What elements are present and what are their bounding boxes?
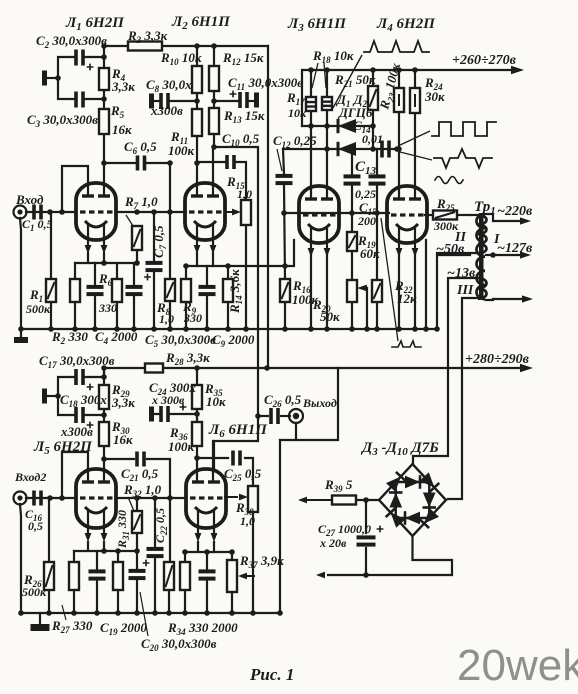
wire C27 bottom lead	[365, 548, 367, 575]
svg-text:0,25: 0,25	[355, 187, 376, 201]
waveform square wave	[432, 122, 496, 136]
wire C26 from coupling	[258, 415, 268, 417]
junction dot R39-bridge	[363, 497, 369, 503]
pointer from pulses	[333, 55, 362, 108]
resistor R39	[332, 496, 356, 505]
tube Л2 6Н1П	[185, 183, 225, 254]
wire R13 bottom lead	[213, 134, 215, 147]
svg-text:10к: 10к	[206, 394, 226, 409]
capacitor C5	[126, 285, 143, 296]
wire R16 to bus	[284, 302, 286, 329]
wire C10 to R15	[236, 162, 246, 200]
wire output box	[295, 423, 297, 440]
wire C17 right lead	[85, 376, 104, 378]
resistor R2	[70, 279, 80, 302]
diode Д9	[405, 511, 420, 525]
wire grid line Л3-Л4	[284, 212, 389, 214]
svg-text:+280÷290в: +280÷290в	[465, 352, 530, 367]
wire C15 top lead	[376, 149, 378, 175]
+260V supply bus with arrow	[302, 66, 524, 74]
capacitor C13	[344, 174, 361, 185]
diode Д2	[338, 142, 356, 156]
wire bridge bottom out	[413, 536, 453, 575]
wire R9 to bus	[185, 302, 187, 329]
wire input grid Л5	[26, 497, 76, 499]
wire anode feed top row	[104, 45, 268, 47]
svg-text:С21 0,5: С21 0,5	[121, 466, 159, 483]
wire R37 top lead	[231, 552, 233, 560]
common terminal C2/C3	[42, 71, 47, 86]
wire C2 right lead	[85, 56, 104, 58]
wire R20 to bus	[351, 302, 353, 329]
capacitor C9	[199, 285, 216, 296]
wire R17 to anode Л3	[310, 111, 312, 199]
wire R2 top lead	[74, 263, 76, 279]
wire R10-R11 node	[196, 93, 198, 109]
wire R35-C24 node	[196, 409, 198, 422]
svg-text:С6 0,5: С6 0,5	[124, 139, 157, 156]
wire R27 top lead	[73, 551, 75, 562]
wire R29-C18 junction	[103, 409, 105, 422]
arrow into R38	[224, 494, 248, 501]
wire R30 to anode Л5	[103, 446, 105, 482]
wire Л3 cathode drops	[310, 253, 312, 329]
resistor R21	[368, 86, 378, 110]
chassis ground lower	[31, 624, 50, 631]
resistor R16	[280, 279, 290, 302]
svg-text:330: 330	[98, 301, 117, 315]
wire Л4 cathode drop right	[414, 254, 416, 329]
pointer line R7 label	[126, 215, 133, 226]
rectifier bridge frame	[379, 464, 446, 536]
capacitor C1	[32, 205, 43, 220]
wire Л5 cathode drops	[87, 542, 89, 551]
svg-text:60к: 60к	[360, 246, 380, 261]
svg-text:R3 3,3к: R3 3,3к	[127, 28, 168, 45]
wire Л2 right anode	[212, 147, 214, 196]
pointer line C12 label	[277, 149, 282, 171]
wire R12-R13 node	[213, 91, 215, 108]
svg-text:С2 30,0х300в: С2 30,0х300в	[36, 33, 107, 50]
svg-text:С22 0,5: С22 0,5	[153, 508, 169, 543]
junction dots +260 bus	[308, 67, 418, 73]
junction dots lower cathode rows	[101, 548, 235, 555]
resistor R9	[181, 279, 191, 302]
wire C18 right lead	[85, 414, 104, 416]
wire R20 wiper	[366, 288, 368, 329]
svg-text:1,0: 1,0	[240, 514, 255, 528]
resistor R28	[145, 364, 163, 373]
capacitor C20	[129, 560, 150, 581]
wire cathode row Л6	[185, 551, 232, 553]
resistor R24	[410, 88, 420, 113]
wire +260 bus drop left	[301, 70, 303, 126]
wire C19 to bus	[96, 581, 98, 613]
wire C24 to node	[170, 413, 197, 415]
capacitor C6	[136, 156, 147, 171]
wire common stub to C2/C3	[47, 77, 58, 79]
capacitor C14	[380, 141, 391, 158]
wire Л1 left anode out	[62, 166, 88, 212]
svg-text:Л4 6Н2П: Л4 6Н2П	[376, 16, 436, 34]
wire R24 top lead	[414, 70, 416, 88]
capacitor C21	[135, 452, 146, 467]
svg-text:0,01: 0,01	[362, 132, 383, 146]
resistor R19	[347, 232, 357, 251]
svg-text:С10 0,5: С10 0,5	[222, 131, 260, 148]
tube Л1 6Н2П	[76, 183, 116, 254]
svg-text:R34 330 2000: R34 330 2000	[167, 620, 238, 637]
wire R32 bottom lead	[136, 533, 138, 551]
wire R15 to bus	[245, 225, 247, 329]
wire ground drop lower	[39, 613, 41, 624]
wire winding I bottom	[486, 299, 493, 300]
wire winding I tap	[486, 254, 493, 256]
capacitor C17	[74, 369, 93, 390]
junction dots multivib bus	[308, 326, 440, 332]
wire C23 leads	[206, 552, 208, 569]
wire winding II bottom	[437, 252, 477, 254]
svg-text:R2 330: R2 330	[51, 329, 88, 346]
resistor R38	[248, 486, 258, 512]
bottom rail with arrow	[316, 572, 452, 579]
wire input grid Л1	[26, 211, 76, 213]
wire Л2 cathode drops	[196, 253, 198, 266]
svg-text:Рис. 1: Рис. 1	[249, 665, 294, 684]
junction dots lower feed	[101, 365, 270, 418]
svg-text:С20 30,0х300в: С20 30,0х300в	[141, 636, 217, 653]
capacitor C3	[74, 92, 85, 108]
wire winding III top	[413, 278, 477, 464]
wire C3 right lead	[85, 98, 104, 100]
pointer line R27 label	[62, 605, 66, 620]
wire R26 column	[48, 498, 50, 562]
resistor R11	[192, 109, 202, 136]
wire R14 leads	[227, 266, 229, 279]
diode Д1	[338, 119, 356, 133]
capacitor C19	[89, 569, 106, 580]
junction dot winding tap	[490, 252, 496, 258]
wire R2 to bus	[74, 302, 76, 329]
junction dots upper grid/anode	[47, 75, 217, 215]
resistor R3	[128, 42, 162, 51]
wire R7 bottom lead	[136, 250, 138, 263]
svg-text:500к: 500к	[22, 585, 47, 599]
svg-text:R37 3,9к: R37 3,9к	[239, 553, 284, 570]
svg-text:R7 1,0: R7 1,0	[124, 194, 158, 211]
wire R37 to bus	[231, 592, 233, 613]
capacitor C8	[159, 93, 170, 109]
wire C11 left lead	[214, 100, 238, 102]
arrow R39 output	[298, 497, 332, 504]
wire R4-C3 junction	[103, 90, 105, 109]
resistor R5	[99, 109, 109, 134]
wire C13 to grid	[351, 185, 353, 213]
wire ground bus lower	[21, 612, 280, 614]
svg-text:R32 1,0: R32 1,0	[123, 482, 162, 499]
wire R14 to bus	[227, 302, 229, 329]
svg-text:R10 10к: R10 10к	[160, 50, 202, 67]
rectifier bridge inner frame	[396, 482, 430, 518]
arrow wiper R37	[238, 573, 255, 580]
svg-text:~127в: ~127в	[497, 241, 533, 256]
svg-text:Вход2: Вход2	[14, 470, 46, 484]
capacitor C18	[74, 407, 93, 428]
wire grid node to R33	[169, 499, 171, 562]
wire diode line D2	[283, 148, 399, 150]
svg-text:200: 200	[357, 214, 376, 228]
svg-text:R31 330: R31 330	[115, 510, 131, 549]
svg-text:С7 0,5: С7 0,5	[151, 225, 168, 258]
wire winding I top	[486, 214, 493, 221]
junction dots upper feed row	[101, 43, 217, 104]
junction dots multivib grid	[281, 210, 380, 216]
wire input2 shield rail	[20, 504, 21, 613]
wire Л6 cathode drops	[197, 542, 199, 552]
resistor R29	[99, 385, 109, 409]
svg-text:С18 300х: С18 300х	[60, 392, 107, 409]
resistor R36	[192, 422, 202, 446]
resistor R12	[209, 66, 219, 91]
svg-text:1,0: 1,0	[237, 187, 252, 201]
wire R23 to anode Л4	[398, 112, 400, 199]
svg-text:R5: R5	[110, 103, 125, 120]
wire C4 leads	[94, 263, 96, 285]
resistor R26	[44, 562, 54, 590]
junction dot C27 bottom	[363, 572, 369, 578]
wire R13 to channel-2 coupling	[214, 147, 258, 469]
svg-text:30к: 30к	[424, 89, 445, 104]
wire C8 stub lead	[154, 100, 159, 102]
wire output shield drop	[279, 440, 281, 613]
svg-text:С25 0,5: С25 0,5	[224, 466, 262, 483]
svg-text:10к: 10к	[288, 106, 307, 120]
svg-text:+260÷270в: +260÷270в	[452, 53, 517, 68]
wire Л4 cathode drops	[398, 254, 400, 329]
svg-text:R25: R25	[436, 196, 455, 213]
wire C27 top lead	[365, 500, 367, 533]
wire C2 left lead	[58, 57, 74, 99]
resistor R1	[46, 279, 56, 302]
wire R25 input	[425, 214, 433, 216]
capacitor C16	[32, 491, 43, 506]
transformer winding I	[477, 214, 486, 299]
svg-text:III: III	[456, 283, 474, 298]
wire R36 to anode Л6	[196, 446, 198, 482]
svg-text:100к: 100к	[168, 143, 195, 158]
resistor R34	[180, 562, 190, 590]
tube Л5 6Н2П	[76, 469, 116, 542]
wire R17 top lead	[310, 70, 312, 97]
svg-text:С4 2000: С4 2000	[95, 329, 138, 346]
svg-text:330: 330	[183, 311, 202, 325]
waveform small sine	[435, 177, 463, 184]
capacitor C24	[159, 404, 186, 422]
svg-text:I: I	[493, 232, 500, 247]
wire C9 to bus	[206, 296, 208, 329]
wire cathode row Л2	[186, 240, 294, 266]
svg-text:16к: 16к	[113, 432, 133, 447]
wire R18 down	[326, 110, 328, 199]
capacitor C12	[276, 174, 293, 185]
transformer winding III	[478, 278, 487, 299]
wire C20 leads	[136, 551, 138, 569]
svg-text:R6: R6	[98, 271, 113, 288]
wire R21 bottom lead	[372, 110, 374, 149]
wire winding II top	[470, 214, 477, 216]
resistor R8	[165, 279, 175, 301]
capacitor C22	[147, 547, 164, 558]
tube Л3 6Н1П	[299, 186, 339, 257]
svg-text:х300в: х300в	[150, 103, 183, 118]
arrow into R15	[225, 209, 241, 216]
wire C25 line	[197, 457, 228, 459]
wire Л6 cathode drop right	[213, 542, 215, 552]
wire R21 top lead	[372, 70, 374, 86]
wire bus to transformer return	[437, 255, 470, 329]
wire Л6 right anode	[212, 441, 214, 482]
resistor R35	[192, 385, 202, 409]
svg-text:1,0: 1,0	[159, 312, 174, 326]
junction dots lower bus	[18, 610, 283, 616]
tube Л4 6Н2П	[387, 186, 427, 257]
wire R34 to bus	[184, 590, 186, 613]
wire R19 to R20	[351, 251, 353, 280]
waveform small sawtooth near +280 bus	[392, 341, 421, 347]
wire Л2 cathode drop right	[212, 253, 214, 266]
wire R6 to bus	[116, 302, 118, 329]
diode Д8	[423, 493, 437, 508]
svg-text:С3 30,0х300в: С3 30,0х300в	[27, 112, 98, 129]
svg-text:Л3 6Н1П: Л3 6Н1П	[287, 16, 347, 34]
svg-text:R18 10к: R18 10к	[312, 48, 354, 65]
wire C6 line	[104, 162, 136, 164]
junction dots upper bus	[18, 326, 288, 332]
wire R31 to bus	[117, 590, 119, 613]
diode Д4	[420, 472, 440, 492]
wire cathode row Л1	[75, 262, 137, 264]
wire C21 line	[104, 458, 134, 460]
arrow wiper R20	[357, 285, 367, 292]
svg-text:R39 5: R39 5	[324, 477, 353, 494]
wire R23 top lead	[398, 70, 400, 88]
wire C26 to output	[281, 415, 290, 417]
resistor R13	[209, 108, 219, 134]
wire R18 top lead	[326, 70, 328, 97]
diode Д7	[405, 475, 420, 489]
wire winding III bottom	[448, 298, 477, 499]
resistor R10	[192, 66, 202, 93]
resistor R27	[69, 562, 79, 590]
input connector Вход	[14, 206, 27, 219]
wire anode feed drop to lower channel	[267, 46, 269, 368]
svg-text:С17 30,0х300в: С17 30,0х300в	[39, 353, 115, 370]
svg-text:R28 3,3к: R28 3,3к	[165, 350, 210, 367]
wire grid line Л1-Л2	[116, 211, 186, 213]
wire common stub lower	[47, 395, 58, 397]
svg-text:R14 3,6к: R14 3,6к	[227, 269, 244, 314]
common terminal C17/C18	[42, 389, 47, 404]
tick inside R23	[398, 94, 400, 106]
stub C11 right	[254, 93, 259, 108]
wire C5 to bus	[133, 296, 135, 329]
resistor R6	[112, 279, 122, 302]
wire C23 to bus	[206, 581, 208, 613]
svg-text:Д3 -Д10 Д7Б: Д3 -Д10 Д7Б	[360, 440, 439, 458]
wire C20 to bus	[136, 580, 138, 613]
wire C10 line	[197, 161, 225, 163]
wire C19 leads	[96, 551, 98, 569]
wire C22 top lead	[154, 498, 156, 548]
wire Л5 left anode out	[62, 452, 88, 498]
arrow winding I bottom	[493, 295, 533, 302]
wire R8 to bus	[169, 301, 171, 329]
junction dots lower grid	[47, 393, 200, 501]
pointer line R32 label	[128, 497, 134, 511]
pointer to square wave	[398, 131, 430, 146]
svg-text:С1 0,5: С1 0,5	[22, 217, 53, 233]
wire R29 column top	[103, 368, 105, 385]
pointer lines R18 label	[312, 63, 326, 88]
wire R6 top lead	[116, 263, 118, 279]
wire R5 to anode Л1	[103, 134, 105, 196]
capacitor C26	[269, 408, 280, 424]
diode Д5	[419, 508, 439, 528]
wire diode line D1	[302, 125, 374, 127]
wire C24 stub lead	[154, 413, 159, 415]
tube Л6 6Н1П	[186, 469, 226, 542]
resistor R18	[322, 97, 332, 110]
svg-text:С9 2000: С9 2000	[212, 332, 255, 349]
wire grid to R22	[376, 213, 378, 280]
wire R24 to anode Л4	[414, 113, 416, 199]
wire Л3 cathode drop right	[326, 253, 328, 329]
resistor R4	[99, 68, 109, 90]
wire bridge left to R39 node	[356, 499, 379, 501]
wire R27 to bus	[73, 590, 75, 613]
wire ground bus upper	[21, 328, 437, 330]
capacitor C10	[225, 155, 236, 169]
capacitor C15	[369, 174, 386, 185]
wire grid to R19	[351, 213, 353, 232]
wire grid line Л5-Л6	[116, 497, 186, 499]
+280V supply bus with arrow	[103, 364, 533, 372]
svg-text:100к: 100к	[168, 439, 195, 454]
wire C21 to grid Л6	[147, 459, 170, 499]
svg-text:Л5 6Н2П: Л5 6Н2П	[33, 439, 93, 457]
arrow ~127в	[493, 251, 531, 258]
transformer winding II	[478, 215, 487, 253]
resistor R25	[433, 211, 457, 220]
resistor R15	[241, 200, 251, 225]
wire R35 top lead	[196, 368, 198, 385]
svg-text:С26 0,5: С26 0,5	[264, 392, 302, 409]
resistor R14	[223, 279, 233, 302]
pointer to spike wave	[400, 152, 432, 160]
wire Л1 cathode drop right	[103, 253, 105, 263]
output connector Выход	[289, 409, 303, 423]
tick inside R24	[414, 94, 416, 107]
wire C6 to grid Л2	[146, 163, 170, 213]
wire R22 to bus	[376, 302, 378, 329]
junction dot cathode join	[282, 263, 288, 269]
resistor R30	[99, 422, 109, 446]
capacitor C27	[357, 526, 384, 547]
svg-text:С13: С13	[355, 159, 377, 177]
wire C9 leads	[206, 266, 208, 285]
arrow ~220в	[493, 217, 531, 224]
svg-text:Л1 6Н2П: Л1 6Н2П	[65, 15, 125, 33]
